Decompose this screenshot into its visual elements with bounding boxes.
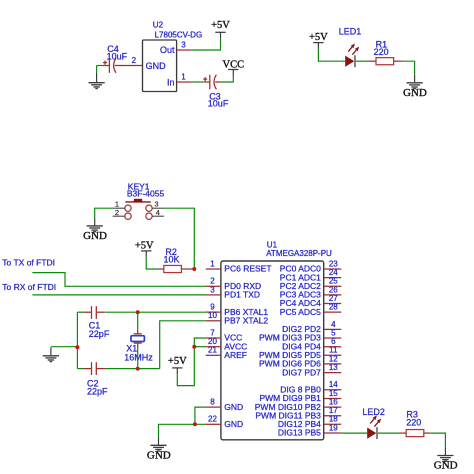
U1 pin 15 PWM DIG9 PB1: [259, 389, 341, 403]
svg-text:In: In: [167, 77, 175, 87]
svg-text:19: 19: [329, 423, 338, 432]
svg-text:GND: GND: [224, 419, 243, 429]
svg-text:14: 14: [329, 380, 338, 389]
U1 pin 14 DIG 8 PB0: [280, 380, 341, 394]
pin 2 GND: [128, 65, 143, 67]
LED1-R1 pin stub: [368, 60, 376, 62]
wire: [378, 432, 400, 434]
U1 pin 23 PC0 ADC0: [280, 259, 342, 273]
wire: [105, 311, 206, 313]
junction: [192, 267, 196, 271]
svg-text:24: 24: [329, 268, 338, 277]
svg-text:GND: GND: [403, 87, 427, 99]
ground GND (R3): [434, 448, 458, 472]
U1 pin 19 DIG13 PB5: [278, 423, 341, 437]
svg-text:21: 21: [208, 346, 217, 355]
svg-text:PC6 RESET: PC6 RESET: [224, 264, 271, 274]
svg-text:To TX of FTDI: To TX of FTDI: [2, 257, 55, 267]
svg-text:GND: GND: [83, 230, 107, 242]
svg-text:3: 3: [210, 285, 215, 294]
wire: [318, 49, 345, 62]
svg-text:L7805CV-DG: L7805CV-DG: [155, 31, 203, 40]
svg-text:10K: 10K: [164, 254, 180, 264]
svg-text:10uF: 10uF: [107, 51, 128, 61]
U1 pin 3 PD1 TXD: [206, 285, 260, 299]
ground GND (R1): [403, 75, 427, 99]
svg-text:2: 2: [115, 208, 119, 217]
svg-text:28: 28: [329, 303, 338, 312]
U1 pin 2 PD0 RXD: [206, 277, 261, 291]
junction: [136, 310, 140, 314]
svg-text:DIG7 PD7: DIG7 PD7: [282, 367, 321, 377]
U1 pin 12 PWM DIG6 PD6: [259, 354, 341, 368]
wire: [430, 433, 445, 448]
svg-text:AREF: AREF: [224, 350, 247, 360]
ground GND (KEY1): [83, 218, 107, 242]
power flag VCC: [223, 59, 245, 75]
U1 pin 21 AREF: [206, 346, 247, 360]
resistor R1 220: [374, 40, 394, 65]
svg-text:DIG13 PB5: DIG13 PB5: [278, 428, 321, 438]
svg-text:16MHz: 16MHz: [124, 352, 153, 362]
wire: [191, 38, 220, 50]
U1 pin 11 PWM DIG5 PD5: [259, 346, 341, 360]
svg-text:+5V: +5V: [135, 240, 154, 251]
wire: [96, 66, 98, 73]
capacitor C2 22pF: [83, 362, 108, 396]
MCU U1 ATMEGA328P-PU: [221, 240, 332, 439]
svg-text:B3F-4055: B3F-4055: [127, 189, 165, 199]
LED2-R3 pin stub: [400, 432, 406, 434]
svg-text:VCC: VCC: [223, 59, 245, 70]
svg-text:10: 10: [208, 311, 217, 320]
U1 pin 5 PWM DIG3 PD3: [259, 328, 341, 342]
wire: [159, 424, 206, 437]
svg-text:ATMEGA328P-PU: ATMEGA328P-PU: [266, 249, 332, 258]
svg-text:LED1: LED1: [339, 26, 362, 36]
svg-text:12: 12: [329, 354, 338, 363]
svg-text:1: 1: [210, 259, 215, 268]
R3 right stub: [424, 432, 430, 434]
junction: [193, 422, 197, 426]
svg-text:GND: GND: [434, 460, 458, 472]
power flag +5V (U2 out): [211, 20, 230, 38]
svg-text:+5V: +5V: [211, 20, 230, 31]
U1 pin 24 PC1 ADC1: [280, 268, 342, 282]
svg-text:2: 2: [132, 56, 137, 65]
svg-text:GND: GND: [146, 61, 167, 71]
wire: [401, 61, 415, 75]
svg-text:GND: GND: [224, 402, 243, 412]
svg-text:+5V: +5V: [168, 356, 187, 367]
svg-text:U2: U2: [153, 20, 164, 29]
pin 1 In: [177, 81, 192, 83]
wire: [32, 273, 205, 287]
crystal X1 16MHz: [124, 330, 153, 363]
U1 pin 10 PB7 XTAL2: [206, 311, 269, 325]
power flag +5V (R2): [135, 240, 154, 257]
LED LED2: [362, 407, 385, 439]
wire: [195, 407, 206, 424]
wire: [105, 368, 160, 370]
pin 3: [152, 207, 164, 209]
svg-text:PC5 ADC5: PC5 ADC5: [280, 307, 321, 317]
capacitor C3 10uF: [203, 75, 229, 109]
svg-text:22: 22: [208, 415, 217, 424]
wire: [95, 208, 113, 218]
svg-text:3: 3: [181, 41, 186, 50]
svg-text:220: 220: [406, 417, 421, 427]
wire: [137, 348, 139, 369]
svg-text:5: 5: [331, 328, 336, 337]
wire: [177, 338, 205, 386]
svg-text:10uF: 10uF: [208, 99, 229, 109]
resistor R2 10K: [164, 247, 182, 272]
junction: [75, 345, 79, 349]
pushbutton KEY1 B3F-4055: [113, 181, 165, 219]
power flag +5V (LED1): [309, 32, 328, 49]
U1 pin 7 VCC: [206, 328, 243, 342]
U1 pin 1 PC6 RESET: [206, 259, 272, 273]
U1 pin 9 PB6 XTAL1: [206, 303, 269, 317]
wire: [146, 257, 157, 269]
svg-text:Out: Out: [160, 45, 175, 55]
wire: [356, 60, 369, 62]
resistor R3 220: [406, 409, 424, 436]
ground (crystal): [43, 347, 59, 361]
pin 2: [113, 215, 125, 217]
R1 right stub: [394, 60, 401, 62]
svg-text:GND: GND: [147, 450, 171, 462]
U1 pin 6 DIG4 PD4: [282, 337, 341, 351]
U1 pin 20 AVCC: [206, 337, 248, 351]
LED LED1: [339, 26, 362, 67]
svg-text:18: 18: [329, 415, 338, 424]
wire: [32, 294, 205, 296]
U1 pin 27 PC4 ADC4: [280, 294, 342, 308]
wire: [194, 346, 205, 348]
svg-text:PB7 XTAL2: PB7 XTAL2: [224, 316, 268, 326]
ground (C4): [89, 73, 105, 89]
wire: [97, 65, 103, 67]
U1 pin 26 PC3 ADC3: [280, 285, 342, 299]
capacitor C4 10uF: [103, 44, 128, 73]
svg-text:9: 9: [210, 303, 215, 312]
pin 1: [113, 207, 125, 209]
U1 pin 4 DIG2 PD2: [282, 320, 341, 334]
wire: [137, 312, 139, 329]
svg-text:To RX of FTDI: To RX of FTDI: [2, 282, 56, 292]
svg-text:22pF: 22pF: [89, 329, 110, 339]
pin 3 Out: [177, 49, 192, 51]
wire: [76, 312, 78, 368]
U1 pin 25 PC2 ADC2: [280, 277, 342, 291]
U1 pin 18 DIG12 PB4: [278, 415, 341, 429]
R2 left stub: [158, 268, 164, 270]
wire: [77, 368, 83, 370]
U1 pin 22 GND: [206, 415, 243, 429]
U1 pin 16 PWM DIG10 PB2: [255, 398, 342, 412]
junction: [136, 367, 140, 371]
U1 pin 17 PWM DIG11 PB3: [255, 406, 341, 420]
wire: [164, 208, 194, 269]
U1 pin 8 GND: [206, 398, 243, 412]
svg-text:7: 7: [210, 328, 215, 337]
U1 pin 28 PC5 ADC5: [280, 303, 342, 317]
U1 pin 13 DIG7 PD7: [282, 363, 341, 377]
junction: [192, 345, 196, 349]
power flag +5V (AVCC): [168, 356, 187, 374]
voltage regulator U2 L7805CV-DG: [128, 20, 203, 91]
pin 4: [152, 215, 164, 217]
wire: [341, 432, 367, 434]
R2 right stub: [181, 268, 194, 270]
svg-text:22pF: 22pF: [87, 387, 108, 397]
capacitor C1 22pF: [83, 306, 110, 339]
svg-text:1: 1: [181, 73, 186, 82]
svg-text:220: 220: [374, 47, 389, 57]
svg-text:8: 8: [210, 398, 215, 407]
svg-text:+5V: +5V: [309, 32, 328, 43]
wire: [51, 346, 78, 348]
svg-text:13: 13: [329, 363, 338, 372]
wire C4 to U2 pin2: [121, 65, 128, 67]
svg-text:4: 4: [156, 208, 160, 217]
wire: [191, 81, 203, 83]
wire: [222, 76, 234, 83]
wire: [160, 321, 206, 369]
ground GND (U1): [147, 437, 171, 461]
svg-text:U1: U1: [267, 240, 278, 249]
svg-text:LED2: LED2: [362, 407, 385, 417]
svg-text:PD1 TXD: PD1 TXD: [224, 290, 260, 300]
wire: [77, 311, 83, 313]
